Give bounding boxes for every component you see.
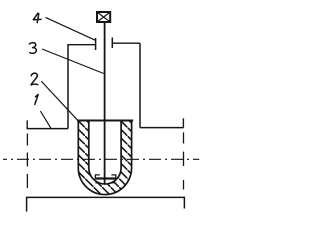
label 1 bbox=[35, 95, 38, 105]
vessel side wall left bbox=[67, 45, 69, 129]
vessel side wall right bbox=[139, 43, 141, 127]
label 3 bbox=[29, 43, 36, 54]
label 2 bbox=[31, 73, 38, 85]
hidden edge below anchor (dashes) bbox=[95, 182, 115, 185]
vessel top wall left segment bbox=[67, 44, 95, 46]
housing 1 hidden side left (dashed) bbox=[26, 134, 28, 189]
housing 1 hidden side right (dashed) bbox=[183, 132, 185, 189]
flange step left bbox=[27, 128, 68, 130]
crucible 2 (hatched U section) bbox=[78, 121, 131, 195]
housing rim stub right bbox=[182, 118, 184, 127]
leader line from 4 bbox=[46, 17, 96, 40]
label 4 bbox=[33, 13, 41, 22]
stirrer hook right bbox=[111, 175, 115, 180]
drive motor 4 (crossed box) bbox=[97, 12, 110, 22]
shaft gland tick right bbox=[111, 38, 113, 49]
shaft gland tick left bbox=[95, 38, 97, 50]
horizontal centre line (dash-dot) bbox=[3, 158, 199, 160]
housing 1 bottom outline bbox=[27, 197, 185, 211]
stirrer anchor bar bbox=[95, 177, 117, 179]
crucible rim line bbox=[77, 120, 133, 122]
flange step right bbox=[140, 127, 184, 129]
stirrer hook left bbox=[95, 175, 99, 180]
leader line from 1 bbox=[40, 111, 51, 128]
leader line from 3 bbox=[42, 49, 104, 74]
stirrer shaft 3 (vertical rod) bbox=[104, 22, 106, 184]
leader line from 2 bbox=[41, 81, 77, 120]
vessel top wall right segment bbox=[113, 42, 140, 44]
housing rim stub left bbox=[26, 120, 28, 128]
